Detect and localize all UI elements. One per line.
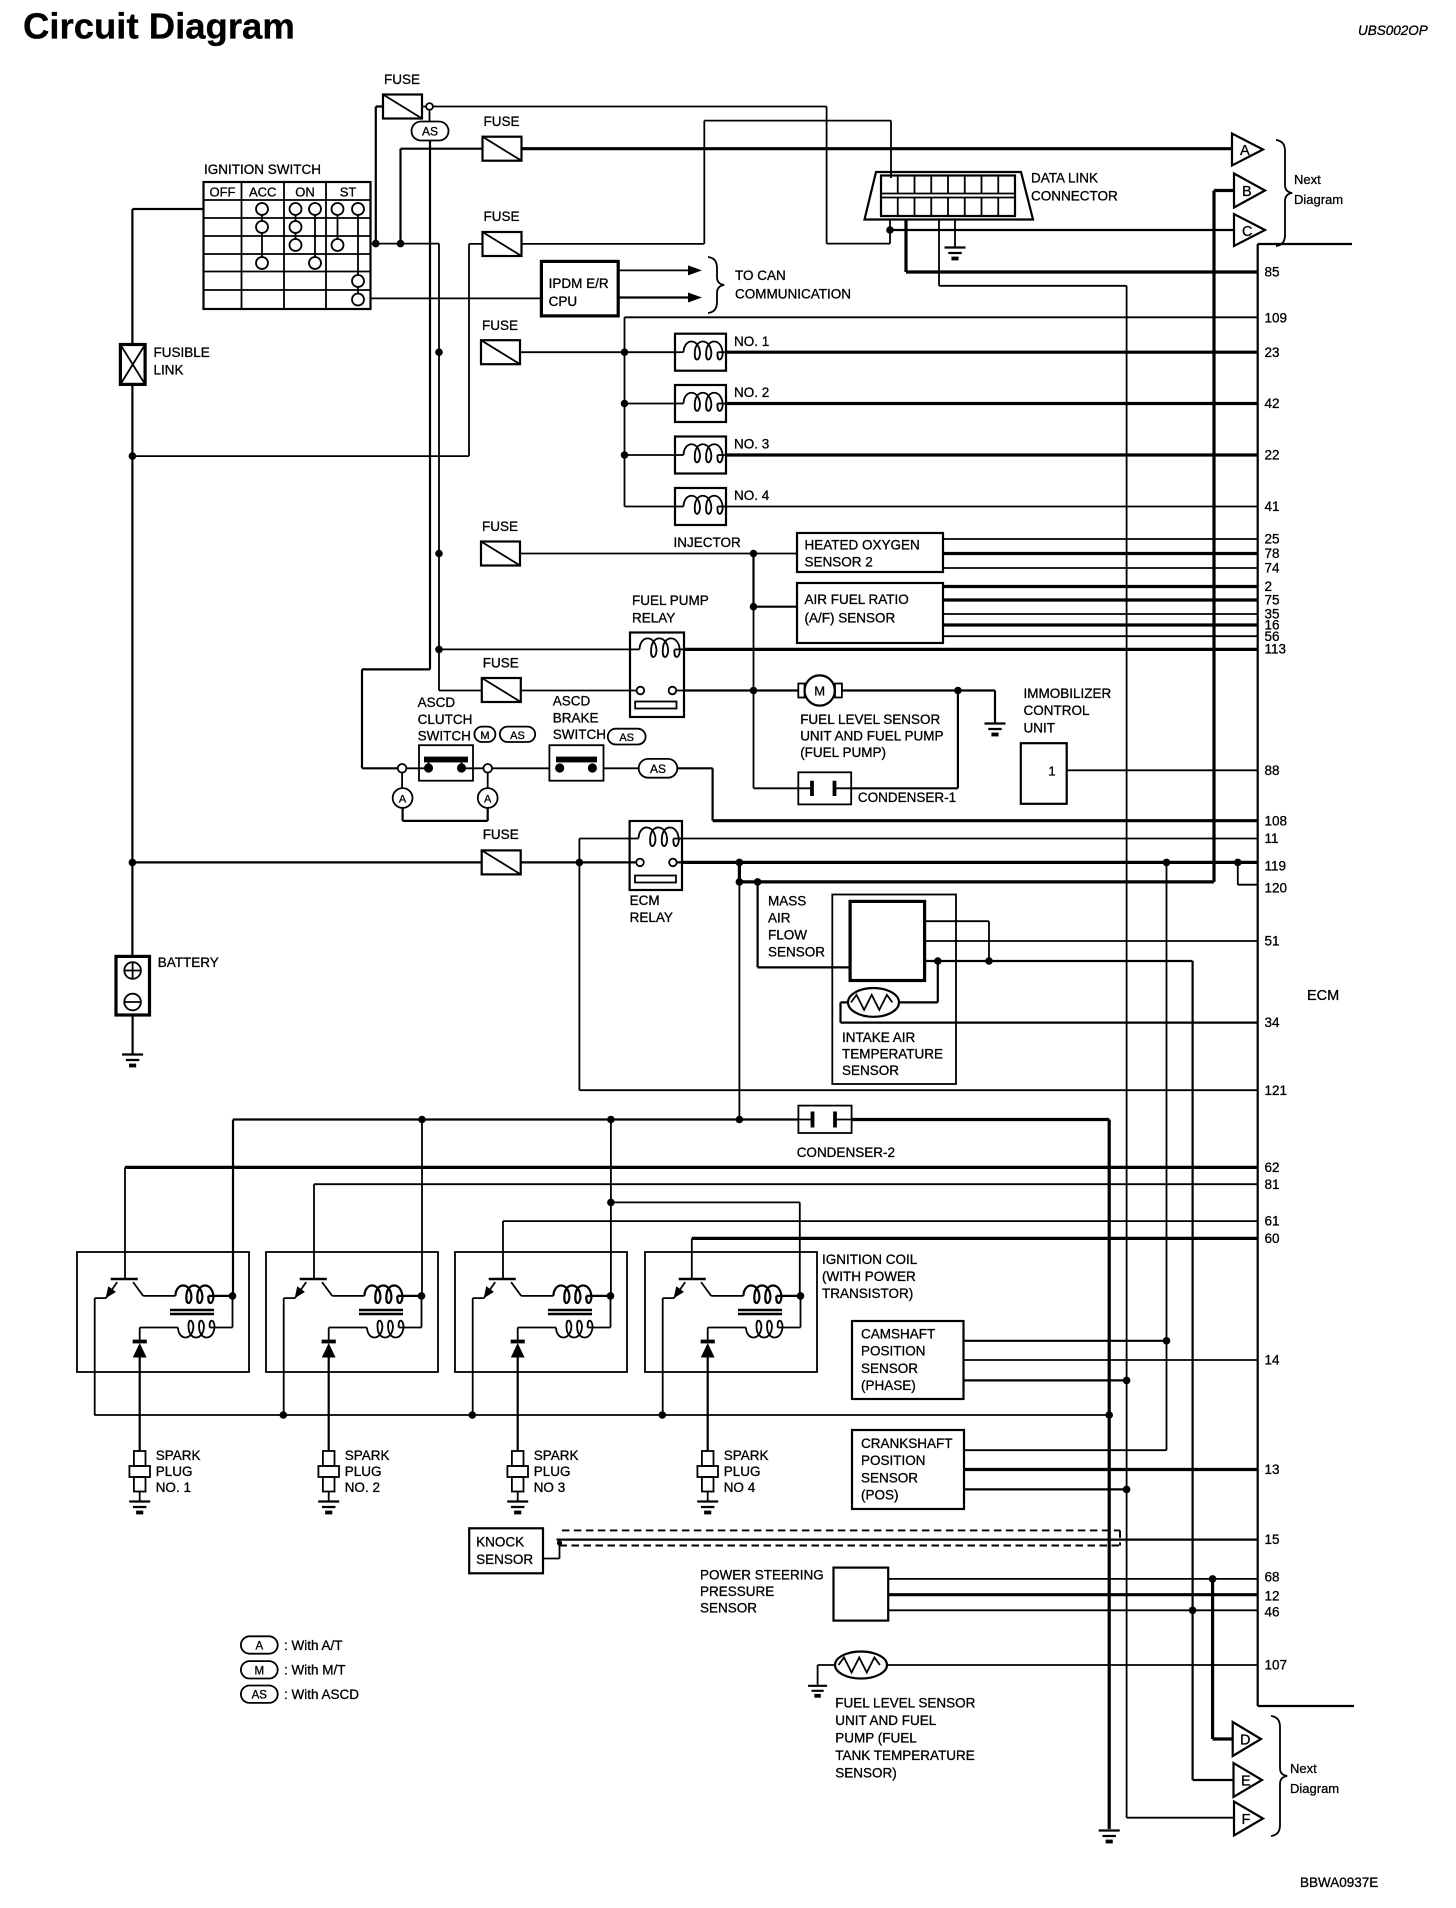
svg-text:SPARK: SPARK (534, 1448, 579, 1463)
svg-text:SENSOR: SENSOR (700, 1601, 757, 1616)
ground: spark plug 1 (129, 1502, 150, 1508)
svg-text:42: 42 (1265, 396, 1280, 411)
spark plug NO.4 (702, 1451, 714, 1466)
svg-text:A: A (1240, 143, 1250, 159)
ECM relay contacts (636, 859, 644, 867)
battery BAT (116, 956, 150, 1015)
svg-text:22: 22 (1265, 448, 1280, 463)
junction: camshaft ground tap (1123, 1377, 1131, 1385)
wire: coil2 power drop (421, 1120, 423, 1296)
oval M (clutch) (474, 727, 495, 742)
svg-text:POSITION: POSITION (861, 1453, 926, 1468)
svg-text:UNIT AND FUEL: UNIT AND FUEL (835, 1713, 937, 1728)
crankshaft position sensor box (852, 1430, 964, 1509)
ground: data link (945, 248, 966, 254)
triangle F (next diagram) (1234, 1802, 1263, 1836)
brace: next diagram (bottom) (1271, 1716, 1287, 1836)
triangle A (next diagram) (1232, 134, 1263, 166)
wire: ECM relay coil to ECM pin 11 (682, 838, 1258, 840)
svg-text:PUMP (FUEL: PUMP (FUEL (835, 1731, 917, 1746)
svg-text:NO. 1: NO. 1 (156, 1480, 191, 1495)
wire: fuse4 to injector bus (520, 351, 625, 353)
svg-text:119: 119 (1265, 859, 1287, 874)
svg-text:CONDENSER-2: CONDENSER-2 (797, 1145, 895, 1160)
wire: MAF output to E riser (925, 961, 1234, 1780)
ignition coil 3 secondary winding (588, 1296, 611, 1328)
svg-text:14: 14 (1265, 1353, 1281, 1368)
wire: fuse6 to relay contact (521, 690, 684, 692)
MAF sensor inner box (850, 901, 925, 980)
wire: A/F to ECM pin 56 (943, 635, 1258, 637)
svg-text:SPARK: SPARK (724, 1448, 769, 1463)
junction: IAT to MAF output (934, 957, 942, 965)
svg-text:BRAKE: BRAKE (553, 710, 599, 725)
wire: A/F to ECM pin 2 (943, 585, 1258, 588)
svg-text:107: 107 (1265, 1658, 1288, 1673)
svg-text:81: 81 (1265, 1177, 1280, 1192)
junction: condenser-1 right tee (954, 687, 962, 695)
svg-text:AS: AS (619, 732, 634, 744)
svg-text:FUSE: FUSE (384, 72, 420, 87)
svg-text:SPARK: SPARK (156, 1448, 201, 1463)
svg-text:FUSE: FUSE (484, 114, 520, 129)
fuse F5 (O2 heaters) (481, 542, 520, 566)
svg-text:BBWA0937E: BBWA0937E (1300, 1875, 1378, 1890)
fuel pump relay contacts (637, 687, 645, 695)
svg-text:113: 113 (1265, 642, 1287, 657)
svg-text:A: A (399, 794, 407, 806)
svg-text:C: C (1242, 224, 1252, 240)
ignition coil 4 secondary winding (778, 1296, 801, 1328)
IPDM E/R CPU box (541, 261, 618, 316)
wire: ignition switch ST row output to IPDM (371, 297, 542, 299)
svg-text:34: 34 (1265, 1015, 1281, 1030)
wire: PSP to ECM pin 46 (888, 1609, 1257, 1611)
junction: rail supply drop (736, 1116, 744, 1124)
svg-text:PRESSURE: PRESSURE (700, 1584, 774, 1599)
svg-text:AIR FUEL RATIO: AIR FUEL RATIO (805, 592, 909, 607)
wire: ignition switch ACC/ON row output (371, 243, 440, 245)
injector NO. 1 coil (625, 351, 676, 353)
junction: crankshaft ground tap (1123, 1486, 1131, 1494)
heated oxygen sensor 2 box (797, 533, 943, 572)
wire: fuse2 output to triangle A (521, 147, 1232, 150)
wire: acc riser (row3 to fuse6) (439, 244, 482, 691)
wire: A circle stubs (402, 773, 488, 789)
wire: IPDM CAN output 2 (618, 296, 697, 298)
svg-text:FUSE: FUSE (482, 318, 518, 333)
svg-text:SENSOR: SENSOR (768, 945, 825, 960)
svg-text:MASS: MASS (768, 894, 806, 909)
svg-text:F: F (1242, 1812, 1251, 1828)
svg-text:FUEL LEVEL SENSOR: FUEL LEVEL SENSOR (800, 712, 940, 727)
svg-text:: With A/T: : With A/T (284, 1638, 343, 1653)
svg-text:NO 4: NO 4 (724, 1480, 756, 1495)
A circle right (478, 788, 498, 808)
data link connector (865, 172, 1034, 220)
condenser-2 C2 (798, 1106, 851, 1133)
fuel pump relay coil (630, 648, 640, 650)
svg-text:60: 60 (1265, 1231, 1280, 1246)
junction: C branch (886, 226, 894, 234)
injector NO. 2 coil (625, 403, 676, 405)
wire: relay contact to fuel pump motor (684, 689, 798, 691)
svg-text:ECM: ECM (630, 893, 660, 908)
wire: MAF to ECM pin 51 (925, 940, 1258, 942)
fuel pump relay box (630, 633, 684, 718)
ignition coil 3 primary winding (553, 1285, 591, 1303)
svg-text:75: 75 (1265, 593, 1280, 608)
svg-text:D: D (1240, 1733, 1250, 1749)
wire: battery to fuse7 (132, 861, 481, 863)
junction: fuel pump supply tee (750, 687, 758, 695)
svg-text:M: M (480, 730, 489, 742)
spark plug NO.2 (323, 1451, 335, 1466)
wire: IAT right lead up (899, 961, 938, 1002)
svg-text:109: 109 (1265, 311, 1288, 326)
oval AS (brake) (608, 729, 646, 745)
svg-text:ON: ON (295, 185, 315, 200)
wire: fuse7 to ECM relay (521, 861, 684, 863)
junction: riser to fuse5 (435, 550, 443, 558)
connector circle on fuse1 output (426, 103, 433, 110)
brace: next diagram (top) (1276, 140, 1292, 246)
svg-text:AS: AS (252, 1690, 268, 1702)
svg-text:OFF: OFF (210, 185, 236, 200)
svg-text:IMMOBILIZER: IMMOBILIZER (1024, 686, 1112, 701)
junction: emitter rail to ground line (1105, 1411, 1113, 1419)
wire: battery positive bus (left vertical) (132, 209, 203, 956)
junction: ECM relay coil supply tap (576, 859, 584, 867)
svg-text:PLUG: PLUG (156, 1464, 193, 1479)
intake air temperature sensor resistor (848, 988, 899, 1017)
wire: brake switch to AS oval (604, 767, 639, 769)
junction: camshaft supply tap (1163, 1337, 1171, 1345)
wire: ECM pin 60 to coil 4 (692, 1237, 1258, 1240)
wire: battery bus to fuse 3 (132, 244, 482, 456)
wire: IPDM CAN output 1 (618, 269, 697, 271)
wire: ECM pin 62 to coil 1 (125, 1166, 1258, 1169)
svg-text:(A/F) SENSOR: (A/F) SENSOR (805, 611, 896, 626)
junction: coil 3 power (607, 1292, 615, 1300)
svg-text:BATTERY: BATTERY (158, 955, 219, 970)
svg-text:NO. 3: NO. 3 (734, 437, 769, 452)
svg-text:IPDM E/R: IPDM E/R (549, 276, 609, 291)
condenser-1 C1 (798, 772, 851, 804)
wire: A/F to ECM pin 75 (943, 598, 1258, 601)
svg-text:SENSOR 2: SENSOR 2 (805, 555, 873, 570)
svg-text:Next: Next (1294, 172, 1321, 187)
legend oval A (241, 1636, 278, 1653)
wire: switched supply rail to next-diagram B (739, 191, 1234, 882)
power transistor Q2 (300, 1278, 327, 1281)
wire: crankshaft signal to ECM pin 13 (964, 1468, 1258, 1471)
A circle left (393, 788, 413, 808)
junction: knock shield (557, 1540, 562, 1545)
wire: fuse3 output to data link top pin (521, 121, 891, 244)
svg-text:: With ASCD: : With ASCD (284, 1687, 359, 1702)
svg-text:AS: AS (650, 762, 666, 776)
junction: A/F sensor supply (750, 603, 758, 611)
svg-text:23: 23 (1265, 345, 1280, 360)
svg-text:FUSE: FUSE (483, 656, 519, 671)
ground: spark plug 2 (318, 1502, 339, 1508)
junction: injector3 tap (621, 451, 629, 459)
svg-text:41: 41 (1265, 499, 1280, 514)
ignition coil 1 core (170, 1310, 214, 1314)
junction: row3 to fuse1 riser (372, 240, 380, 248)
svg-text:Next: Next (1290, 1761, 1317, 1776)
svg-text:68: 68 (1265, 1570, 1280, 1585)
svg-text:HEATED OXYGEN: HEATED OXYGEN (805, 538, 920, 553)
triangle D (next diagram) (1233, 1722, 1261, 1756)
wire: ECM pin 81 to coil 2 (314, 1184, 1258, 1279)
svg-text:88: 88 (1265, 763, 1280, 778)
svg-text:DATA LINK: DATA LINK (1031, 171, 1098, 186)
oval AS (clutch) (500, 727, 535, 742)
svg-text:PLUG: PLUG (534, 1464, 571, 1479)
svg-text:A: A (484, 794, 492, 806)
brace: TO CAN (708, 257, 724, 313)
ignition coil 3 core (548, 1310, 592, 1314)
ignition switch table frame (204, 182, 371, 309)
fusible link FL (120, 345, 145, 385)
fuse F2 (to next diagram A) (483, 137, 522, 161)
svg-text:KNOCK: KNOCK (476, 1535, 524, 1550)
svg-text:CONNECTOR: CONNECTOR (1031, 189, 1118, 204)
junction: 119 wire to pin120 jog (1234, 859, 1242, 867)
wire: fuel pump relay coil to ECM pin 113 (684, 648, 1258, 651)
wire: MAF supply drop (758, 882, 851, 968)
junction: emitter coil4 (659, 1411, 667, 1419)
wire: C wire to triangle C (890, 229, 1234, 231)
svg-text:PLUG: PLUG (345, 1464, 382, 1479)
wire: PSP to ECM pin 68 (888, 1578, 1257, 1580)
junction: rail to condenser-2 drop (736, 878, 744, 886)
wire: data link to C wire (889, 220, 891, 244)
svg-text:LINK: LINK (154, 363, 184, 378)
wire: camshaft supply (964, 1340, 1167, 1342)
svg-text:46: 46 (1265, 1605, 1280, 1620)
svg-text:IGNITION COIL: IGNITION COIL (822, 1252, 918, 1267)
power transistor Q4 (679, 1278, 706, 1281)
ignition coil 4 core (738, 1310, 782, 1314)
junction: rail to MAF supply (754, 878, 762, 886)
svg-text:B: B (1242, 184, 1252, 200)
ignition coil 4 primary winding (743, 1285, 781, 1303)
fuel tank temperature sensor resistor (835, 1652, 887, 1679)
camshaft position sensor box (852, 1321, 964, 1399)
svg-text:NO. 2: NO. 2 (734, 385, 769, 400)
fuel pump motor M (798, 684, 804, 698)
wire: HO2S to ECM pin 25 (943, 538, 1258, 540)
wire: sensors supply riser (964, 862, 1167, 1450)
svg-text:CRANKSHAFT: CRANKSHAFT (861, 1436, 953, 1451)
wire: motor to ground (842, 691, 995, 723)
wire: ECM relay output to ECM pin 119 (682, 861, 1258, 864)
wire: HO2S to ECM pin 78 (943, 552, 1258, 555)
svg-text:FUEL LEVEL SENSOR: FUEL LEVEL SENSOR (835, 1696, 975, 1711)
svg-text:12: 12 (1265, 1589, 1280, 1604)
ignition coil box 2 (266, 1252, 438, 1372)
junction: 68 to D riser (1209, 1575, 1217, 1583)
injector NO. 3 coil (625, 454, 676, 456)
wire: D riser (1213, 1579, 1233, 1739)
wire: A/F sensor supply (754, 606, 798, 608)
diode coil 3 (511, 1340, 525, 1344)
svg-text:SPARK: SPARK (345, 1448, 390, 1463)
wire: AS oval to ECM pin 108 (677, 768, 712, 820)
ignition coil 2 secondary winding (399, 1296, 422, 1328)
fuse F4 (injectors) (481, 340, 520, 364)
wire: injector 4 to ECM pin 41 (726, 506, 1258, 508)
wire: riser to fuse 1 (376, 107, 383, 244)
svg-text:ST: ST (340, 185, 357, 200)
svg-text:FUSE: FUSE (484, 209, 520, 224)
wire: clutch switch internals (406, 767, 483, 769)
spark plug NO.1 (134, 1451, 146, 1466)
ignition switch contact links (262, 215, 358, 294)
junction: coil 4 power (797, 1292, 805, 1300)
spark plug NO.3 (512, 1451, 524, 1466)
svg-text:PLUG: PLUG (724, 1464, 761, 1479)
ignition coil box 1 (77, 1252, 249, 1372)
fuse F1 (ASCD) (383, 95, 422, 119)
contact circle right of clutch switch (483, 764, 492, 773)
ground: fuel tank sensor (808, 1686, 827, 1691)
wire: riser to fuse 2 (401, 149, 483, 244)
power transistor Q1 (111, 1278, 138, 1281)
wire: coil3 power drop (610, 1120, 612, 1296)
wire: A/F to ECM pin 16 (943, 623, 1258, 626)
svg-text:61: 61 (1265, 1214, 1280, 1229)
svg-text:FUSE: FUSE (483, 827, 519, 842)
junction: battery bus to fuse7 feed (129, 859, 137, 867)
ignition coil box 3 (455, 1252, 627, 1372)
svg-text:M: M (814, 683, 825, 698)
ground: battery (122, 1055, 143, 1061)
svg-text:CAMSHAFT: CAMSHAFT (861, 1327, 935, 1342)
ground: main (bottom) (1099, 1831, 1120, 1837)
svg-text:NO 3: NO 3 (534, 1480, 566, 1495)
junction: battery bus to fuse3 feed (129, 452, 137, 460)
fuse F3 (IGN) (483, 232, 522, 256)
wire: supply drop to coil rail (738, 882, 740, 1120)
wire: ECM pin 61 to coil 3 (503, 1221, 1258, 1279)
svg-text:TO CAN: TO CAN (735, 268, 786, 283)
svg-text:RELAY: RELAY (630, 910, 673, 925)
junction: 46 to E riser (1189, 1607, 1197, 1615)
svg-text:85: 85 (1265, 265, 1280, 280)
wire: injector supply bus / pin109 tap (625, 317, 1258, 506)
svg-text:CONTROL: CONTROL (1024, 703, 1090, 718)
wire: knock sensor to ECM pin 15 (557, 1538, 1258, 1540)
junction: coil 1 power (229, 1292, 237, 1300)
triangle C (next diagram) (1234, 214, 1265, 246)
svg-text:RELAY: RELAY (632, 611, 675, 626)
svg-text:AIR: AIR (768, 911, 791, 926)
wire: injector 2 to ECM pin 42 (726, 402, 1258, 405)
wire: condenser-1 right lead (851, 691, 958, 789)
wire: tank sensor to ground (818, 1665, 835, 1685)
svg-text:Diagram: Diagram (1294, 192, 1343, 207)
svg-text:(PHASE): (PHASE) (861, 1378, 916, 1393)
junction: 119 wire to ignition supply drop (736, 859, 744, 867)
junction: row3 to fuse2 riser (397, 240, 405, 248)
wire: fuse5 to heated oxygen sensor (520, 553, 797, 555)
wire: A/F to ECM pin 35 (943, 613, 1258, 615)
ground: spark plug 4 (697, 1502, 718, 1508)
injector NO. 4 coil (625, 506, 676, 508)
junction: riser to fuse4 (435, 348, 443, 356)
contact circle left of clutch switch (398, 764, 407, 773)
wire: riser to fuel pump relay coil (439, 648, 630, 650)
wire: IAT left lead to ECM pin 34 (841, 1002, 1258, 1022)
svg-text:SENSOR): SENSOR) (835, 1766, 897, 1781)
svg-text:INJECTOR: INJECTOR (674, 535, 742, 550)
svg-text:121: 121 (1265, 1083, 1288, 1098)
svg-text:TANK TEMPERATURE: TANK TEMPERATURE (835, 1748, 975, 1763)
legend oval AS (241, 1686, 278, 1703)
power transistor Q3 (489, 1278, 516, 1281)
diode coil 1 (133, 1340, 147, 1344)
svg-text:ECM: ECM (1307, 988, 1339, 1004)
svg-text:51: 51 (1265, 934, 1280, 949)
wire: A/T bypass U (403, 808, 488, 821)
svg-text:A: A (255, 1641, 263, 1653)
wire: pin 120 jog (1238, 862, 1258, 884)
ground: spark plug 3 (507, 1502, 528, 1508)
legend oval M (241, 1661, 278, 1678)
junction: MAF pin1 join (985, 957, 993, 965)
svg-text:ACC: ACC (249, 185, 276, 200)
mass air flow sensor outer box (832, 895, 956, 1085)
svg-text:FUEL PUMP: FUEL PUMP (632, 593, 709, 608)
svg-text:62: 62 (1265, 1160, 1280, 1175)
svg-text:TRANSISTOR): TRANSISTOR) (822, 1286, 913, 1301)
ground: fuel pump (985, 724, 1006, 730)
svg-text:IGNITION SWITCH: IGNITION SWITCH (204, 162, 321, 177)
diode coil 2 (322, 1340, 336, 1344)
junction: emitter coil3 (469, 1411, 477, 1419)
wire: camshaft ground (964, 1379, 1127, 1381)
svg-text:120: 120 (1265, 881, 1288, 896)
wire: MAF pin1 jog (925, 921, 989, 961)
svg-text:E: E (1241, 1774, 1251, 1790)
triangle E (next diagram) (1234, 1763, 1263, 1797)
svg-text:SENSOR: SENSOR (842, 1063, 899, 1078)
svg-text:ASCD: ASCD (553, 694, 591, 709)
wire: coil4 power jog (611, 1202, 800, 1296)
svg-text:TEMPERATURE: TEMPERATURE (842, 1047, 943, 1062)
shield: knock sensor cable (dashed) (560, 1530, 1121, 1545)
knock sensor box (469, 1528, 543, 1573)
wire: condenser-2 to main ground (852, 1120, 1110, 1830)
svg-text:FUSIBLE: FUSIBLE (154, 345, 210, 360)
ECM relay box (630, 821, 682, 890)
wire: AS oval drop to ASCD switches (362, 141, 430, 769)
diode coil 4 (701, 1340, 715, 1344)
ignition coil 1 primary winding (175, 1285, 213, 1303)
wire: clutch to brake switch (492, 767, 549, 769)
svg-text:UNIT: UNIT (1024, 720, 1056, 735)
svg-text:SWITCH: SWITCH (553, 727, 606, 742)
triangle B (next diagram) (1234, 174, 1265, 208)
ignition switch contact circles (256, 203, 268, 215)
junction: O2 supply drop (750, 550, 758, 558)
junction: riser to relay coil (435, 646, 443, 654)
ignition coil 2 primary winding (364, 1285, 402, 1303)
